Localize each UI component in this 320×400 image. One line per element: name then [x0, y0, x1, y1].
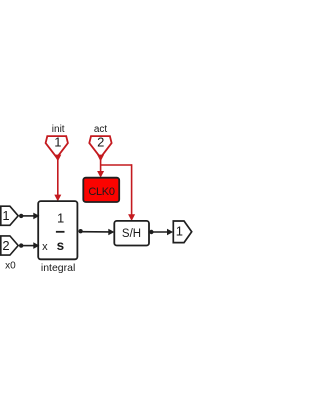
svg-text:2: 2 — [97, 135, 104, 150]
svg-text:integral: integral — [41, 262, 75, 274]
input event port act (port 2) — [89, 136, 111, 158]
svg-text:1: 1 — [176, 223, 183, 238]
input port 2 — [1, 236, 18, 255]
svg-text:1: 1 — [54, 135, 61, 150]
arrowhead into integral input x — [33, 242, 39, 249]
wire input 1 to integral — [21, 215, 35, 217]
arrowhead into integral top — [54, 195, 61, 202]
arrowhead at init port apex — [54, 155, 61, 162]
junction dot at input port 2 tip — [19, 243, 23, 247]
svg-text:s: s — [57, 238, 65, 253]
arrowhead into S/H input — [108, 229, 114, 236]
svg-text:1: 1 — [2, 208, 9, 223]
wire act apex down to CLK0 top — [100, 156, 102, 174]
input event port init (port 1) — [46, 136, 68, 158]
wire integral to S/H — [81, 231, 110, 233]
output port 1 — [173, 221, 191, 243]
arrowhead into S/H top — [128, 214, 135, 221]
arrowhead into integral input 1 — [33, 213, 39, 220]
svg-text:init: init — [52, 124, 65, 135]
svg-text:act: act — [94, 124, 108, 135]
arrowhead into CLK0 top — [97, 171, 104, 178]
wire init apex down to integral top — [57, 156, 59, 198]
arrowhead into output port — [167, 229, 173, 236]
svg-text:x: x — [42, 241, 48, 253]
wire S/H to output port — [151, 231, 168, 233]
junction dot at input port 1 tip — [19, 214, 23, 218]
svg-text:2: 2 — [2, 238, 9, 253]
block CLK0 — [83, 178, 119, 202]
fraction bar — [56, 231, 65, 233]
junction dot at S/H output — [149, 230, 153, 234]
svg-text:x0: x0 — [5, 260, 16, 271]
svg-text:1: 1 — [57, 211, 64, 226]
wire act branch horizontal to S/H column — [101, 164, 132, 166]
input port 1 — [1, 206, 18, 225]
block integral (1/s) — [38, 201, 77, 259]
svg-text:CLK0: CLK0 — [88, 186, 114, 198]
block S/H — [114, 221, 149, 246]
arrowhead at act port apex — [97, 155, 104, 162]
wire input 2 to integral x — [21, 245, 35, 247]
junction dot at integral output — [78, 229, 82, 233]
wire down to S/H top — [131, 164, 133, 217]
svg-text:S/H: S/H — [122, 228, 141, 240]
